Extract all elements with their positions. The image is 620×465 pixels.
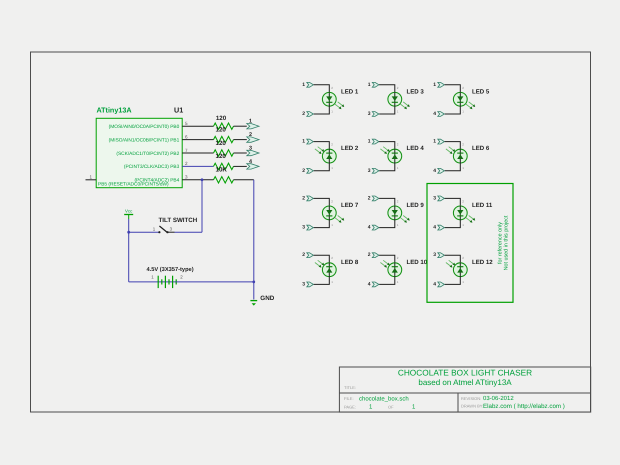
wire tilt switch to node A horizontal bbox=[175, 231, 203, 233]
wire top arrow to LED 10 bbox=[379, 255, 395, 263]
wire IC pin 5 to R1 bbox=[182, 125, 213, 127]
svg-text:U1: U1 bbox=[174, 106, 183, 115]
svg-text:5: 5 bbox=[185, 121, 188, 126]
battery BT1 4.5V bbox=[158, 276, 176, 288]
svg-text:REVISION:: REVISION: bbox=[461, 396, 481, 401]
wire top arrow to LED 4 bbox=[379, 142, 395, 150]
label LED 12 bbox=[472, 259, 493, 266]
svg-text:TILT SWITCH: TILT SWITCH bbox=[159, 217, 198, 224]
LED LED 1 bbox=[322, 92, 344, 109]
svg-text:3: 3 bbox=[302, 281, 305, 287]
pin number 3 bbox=[185, 175, 188, 180]
LED LED 10 bbox=[380, 260, 401, 276]
LED LED 11 bbox=[453, 206, 475, 223]
wire LED 5 to bottom arrow bbox=[445, 106, 461, 114]
svg-text:LED 9: LED 9 bbox=[407, 202, 425, 209]
svg-text:PAGE:: PAGE: bbox=[344, 404, 356, 409]
label LED 8 bbox=[341, 259, 359, 266]
svg-text:LED 2: LED 2 bbox=[341, 145, 359, 152]
svg-text:CHOCOLATE BOX LIGHT CHASER: CHOCOLATE BOX LIGHT CHASER bbox=[398, 367, 532, 377]
net label 4 (bottom of LED 10) bbox=[368, 281, 371, 287]
label LED 3 bbox=[407, 88, 425, 95]
net label 3 (bottom of LED 3) bbox=[368, 111, 371, 117]
LED LED 9 bbox=[388, 206, 410, 223]
svg-text:3: 3 bbox=[368, 111, 371, 117]
svg-text:1: 1 bbox=[368, 139, 371, 145]
title text based on Atmel ATtiny13A bbox=[418, 378, 512, 387]
net arrow top of LED 8 bbox=[307, 253, 314, 258]
svg-text:3: 3 bbox=[302, 225, 305, 231]
svg-text:LED 7: LED 7 bbox=[341, 202, 359, 209]
resistor R2 (120) bbox=[214, 136, 234, 142]
file name chocolate_box.sch bbox=[359, 396, 409, 403]
svg-text:OF: OF bbox=[388, 404, 394, 409]
LED LED 12 bbox=[446, 260, 467, 276]
net arrow top of LED 9 bbox=[372, 196, 379, 201]
svg-text:1: 1 bbox=[90, 174, 93, 179]
svg-text:3: 3 bbox=[185, 175, 188, 180]
net label 2 (top of LED 7) bbox=[302, 195, 305, 201]
label LED 11 bbox=[472, 202, 493, 209]
pin mark bottom of LED 12 bbox=[462, 280, 464, 284]
net arrow bottom of LED 3 bbox=[372, 112, 379, 117]
svg-text:120: 120 bbox=[216, 126, 227, 133]
pin label (PCINT3/CLK/ADC3) PB3 bbox=[124, 164, 180, 170]
net arrow top of LED 3 bbox=[372, 82, 379, 87]
wire down to ground bbox=[253, 282, 255, 300]
net label 4 bbox=[249, 159, 252, 165]
wire battery right to GND vertical bbox=[176, 281, 254, 283]
pin mark top of LED 7 bbox=[331, 199, 333, 203]
net label 1 (top of LED 4) bbox=[368, 139, 371, 145]
label LED 9 bbox=[407, 202, 425, 209]
wire R2 to net arrow 2 bbox=[234, 139, 247, 141]
LED LED 2 bbox=[315, 147, 336, 163]
wire IC pin 3 to node A bbox=[182, 179, 213, 181]
svg-text:for reference only: for reference only bbox=[497, 222, 503, 264]
resistor R5 bbox=[214, 177, 234, 183]
value label 120 bbox=[216, 153, 227, 160]
label TITLE bbox=[344, 385, 356, 390]
svg-text:ATtiny13A: ATtiny13A bbox=[97, 106, 132, 115]
svg-text:4: 4 bbox=[433, 111, 436, 117]
wire top arrow to LED 5 bbox=[445, 85, 461, 93]
wire IC pin 2 to R4 bbox=[182, 165, 213, 167]
svg-text:(MISO/AIN1/OC0B/PCINT1) PB1: (MISO/AIN1/OC0B/PCINT1) PB1 bbox=[109, 137, 180, 143]
net label 1 (top of LED 6) bbox=[433, 139, 436, 145]
net label 2 (top of LED 10) bbox=[368, 252, 371, 258]
value label 120 (R1 name above) bbox=[216, 115, 227, 122]
net arrow 1 bbox=[247, 124, 259, 129]
net arrow 2 bbox=[247, 137, 259, 142]
svg-text:LED 10: LED 10 bbox=[407, 259, 428, 266]
net label 1 (top of LED 1) bbox=[302, 82, 305, 88]
note box (LED11/LED12 not used) bbox=[427, 184, 513, 303]
label LED 7 bbox=[341, 202, 359, 209]
wire top arrow to LED 6 bbox=[445, 142, 461, 150]
wire top arrow to LED 12 bbox=[445, 255, 461, 263]
resistor R3 (120) bbox=[214, 150, 234, 156]
wire top arrow to LED 11 bbox=[445, 198, 461, 206]
wire Vcc down to switch junction bbox=[128, 219, 130, 232]
pin mark top of LED 2 bbox=[331, 143, 333, 147]
label DRAWN BY bbox=[461, 403, 483, 408]
pin mark bottom of LED 1 bbox=[331, 109, 333, 113]
svg-text:FILE:: FILE: bbox=[344, 396, 354, 401]
net arrow top of LED 2 bbox=[307, 139, 314, 144]
net arrow top of LED 10 bbox=[372, 253, 379, 258]
pin label (MOSI/AIN0/OC0A/PCINT0) PB0 bbox=[109, 124, 180, 130]
pin mark top of LED 3 bbox=[397, 86, 399, 90]
label REVISION bbox=[461, 396, 481, 401]
svg-text:1: 1 bbox=[302, 139, 305, 145]
svg-text:LED 5: LED 5 bbox=[472, 88, 490, 95]
svg-text:3: 3 bbox=[249, 145, 252, 151]
net arrow bottom of LED 1 bbox=[307, 112, 314, 117]
title block bbox=[339, 367, 590, 412]
net arrow top of LED 4 bbox=[372, 139, 379, 144]
net arrow top of LED 7 bbox=[307, 196, 314, 201]
net arrow top of LED 5 bbox=[438, 82, 445, 87]
pin mark bottom of LED 9 bbox=[397, 223, 399, 227]
svg-text:2: 2 bbox=[368, 195, 371, 201]
pin number 2 (battery) bbox=[180, 275, 183, 280]
svg-text:4: 4 bbox=[433, 281, 436, 287]
svg-text:2: 2 bbox=[185, 161, 188, 166]
wire top arrow to LED 9 bbox=[379, 198, 395, 206]
svg-text:3: 3 bbox=[433, 252, 436, 258]
pin mark bottom of LED 4 bbox=[397, 166, 399, 170]
svg-text:2: 2 bbox=[302, 111, 305, 117]
power Vcc symbol bbox=[124, 215, 133, 220]
wire battery left lead bbox=[129, 281, 177, 283]
svg-text:4: 4 bbox=[368, 281, 371, 287]
pin number 1 (battery) bbox=[151, 275, 154, 280]
wire LED 8 to bottom arrow bbox=[314, 277, 330, 285]
net label 1 (top of LED 2) bbox=[302, 139, 305, 145]
label Vcc bbox=[125, 208, 133, 213]
label LED 10 bbox=[407, 259, 428, 266]
svg-text:(MOSI/AIN0/OC0A/PCINT0) PB0: (MOSI/AIN0/OC0A/PCINT0) PB0 bbox=[109, 124, 180, 130]
svg-text:1: 1 bbox=[433, 139, 436, 145]
svg-text:(PCINT3/CLK/ADC3) PB3: (PCINT3/CLK/ADC3) PB3 bbox=[124, 164, 180, 170]
wire R1 to net arrow 1 bbox=[234, 125, 247, 127]
drawn by Elabz.com bbox=[483, 403, 565, 410]
svg-text:LED 11: LED 11 bbox=[472, 202, 493, 209]
net label 2 (top of LED 9) bbox=[368, 195, 371, 201]
value label 120 bbox=[216, 126, 227, 133]
net arrow bottom of LED 6 bbox=[438, 168, 445, 173]
svg-text:GND: GND bbox=[260, 295, 274, 302]
net label 4 (bottom of LED 9) bbox=[368, 225, 371, 231]
svg-text:120: 120 bbox=[216, 140, 227, 147]
svg-text:LED 4: LED 4 bbox=[407, 145, 425, 152]
net arrow bottom of LED 12 bbox=[438, 282, 445, 287]
net arrow bottom of LED 2 bbox=[307, 168, 314, 173]
net label 3 bbox=[249, 145, 252, 151]
wire LED 2 to bottom arrow bbox=[314, 163, 330, 171]
pin number 7 bbox=[185, 148, 188, 153]
wire IC pin 6 to R2 bbox=[182, 139, 213, 141]
net arrow bottom of LED 9 bbox=[372, 225, 379, 230]
svg-text:2: 2 bbox=[302, 168, 305, 174]
label LED 1 bbox=[341, 88, 359, 95]
svg-text:based on Atmel ATtiny13A: based on Atmel ATtiny13A bbox=[418, 378, 512, 387]
wire junction to switch left bbox=[129, 231, 160, 233]
wire LED 1 to bottom arrow bbox=[314, 106, 330, 114]
wire R5 down right side bbox=[253, 180, 255, 282]
value label 10K bbox=[216, 167, 228, 174]
wire LED 9 to bottom arrow bbox=[379, 220, 395, 228]
label OF bbox=[388, 404, 394, 409]
op-amp U1 ATtiny13A IC body bbox=[96, 118, 182, 187]
wire R3 to net arrow 3 bbox=[234, 152, 247, 154]
net label 2 (bottom of LED 2) bbox=[302, 168, 305, 174]
LED LED 5 bbox=[453, 92, 475, 109]
net arrow top of LED 6 bbox=[438, 139, 445, 144]
svg-text:120: 120 bbox=[216, 115, 227, 122]
wire top arrow to LED 8 bbox=[314, 255, 330, 263]
label ATtiny13A bbox=[97, 106, 132, 115]
LED LED 6 bbox=[446, 147, 467, 163]
svg-text:Vcc: Vcc bbox=[125, 208, 133, 213]
svg-text:LED 8: LED 8 bbox=[341, 259, 359, 266]
wire IC pin 7 to R3 bbox=[182, 152, 213, 154]
wire R4 to net arrow 4 bbox=[234, 165, 247, 167]
label GND bbox=[260, 295, 274, 302]
resistor R4 (10K) bbox=[214, 163, 234, 169]
pin mark top of LED 6 bbox=[462, 143, 464, 147]
net label 1 (top of LED 3) bbox=[368, 82, 371, 88]
pin mark top of LED 1 bbox=[331, 86, 333, 90]
note text: Not used in this project bbox=[504, 215, 510, 270]
svg-text:4: 4 bbox=[433, 168, 436, 174]
pin mark top of LED 8 bbox=[331, 256, 333, 260]
svg-text:03-06-2012: 03-06-2012 bbox=[483, 395, 514, 402]
svg-text:DRAWN BY:: DRAWN BY: bbox=[461, 403, 483, 408]
svg-text:2: 2 bbox=[368, 252, 371, 258]
svg-text:1: 1 bbox=[249, 119, 252, 125]
label TILT SWITCH bbox=[159, 217, 198, 224]
wire LED 7 to bottom arrow bbox=[314, 220, 330, 228]
svg-text:LED 3: LED 3 bbox=[407, 88, 425, 95]
wire LED 6 to bottom arrow bbox=[445, 163, 461, 171]
svg-text:1: 1 bbox=[302, 82, 305, 88]
net label 3 (top of LED 11) bbox=[433, 195, 436, 201]
wire top arrow to LED 1 bbox=[314, 85, 330, 93]
svg-text:120: 120 bbox=[216, 153, 227, 160]
pin number 1 bbox=[90, 174, 93, 179]
label LED 6 bbox=[472, 145, 490, 152]
pin number 3 (switch) bbox=[170, 227, 173, 232]
wire top arrow to LED 3 bbox=[379, 85, 395, 93]
net label 3 (bottom of LED 4) bbox=[368, 168, 371, 174]
pin mark top of LED 9 bbox=[397, 199, 399, 203]
pin 1 stub wire bbox=[86, 179, 97, 181]
pin mark top of LED 12 bbox=[462, 256, 464, 260]
svg-text:(SCK/ADC1/T0/PCINT2) PB2: (SCK/ADC1/T0/PCINT2) PB2 bbox=[116, 151, 179, 157]
svg-text:7: 7 bbox=[185, 148, 188, 153]
pin mark bottom of LED 6 bbox=[462, 166, 464, 170]
resistor R1 (120) bbox=[214, 123, 234, 129]
net label 4 (bottom of LED 12) bbox=[433, 281, 436, 287]
LED LED 3 bbox=[388, 92, 410, 109]
net arrow 4 bbox=[247, 164, 259, 169]
pin number 1 (switch) bbox=[153, 227, 156, 232]
label LED 5 bbox=[472, 88, 490, 95]
wire top arrow to LED 7 bbox=[314, 198, 330, 206]
label U1 bbox=[174, 106, 183, 115]
wire LED 3 to bottom arrow bbox=[379, 106, 395, 114]
note text: for reference only bbox=[497, 222, 503, 264]
label LED 4 bbox=[407, 145, 425, 152]
svg-text:PB5 (RESET/ADC0/PCINT5/dW): PB5 (RESET/ADC0/PCINT5/dW) bbox=[98, 182, 169, 188]
net arrow top of LED 11 bbox=[438, 196, 445, 201]
net label 3 (bottom of LED 8) bbox=[302, 281, 305, 287]
LED LED 7 bbox=[322, 206, 344, 223]
tilt switch S1 bbox=[158, 226, 174, 233]
label FILE bbox=[344, 396, 354, 401]
svg-text:4: 4 bbox=[249, 159, 252, 165]
net label 1 (top of LED 5) bbox=[433, 82, 436, 88]
net label 2 (bottom of LED 1) bbox=[302, 111, 305, 117]
net label 3 (top of LED 12) bbox=[433, 252, 436, 258]
svg-text:4: 4 bbox=[433, 225, 436, 231]
svg-text:2: 2 bbox=[302, 252, 305, 258]
label PAGE bbox=[344, 404, 356, 409]
net arrow bottom of LED 10 bbox=[372, 282, 379, 287]
net label 2 (top of LED 8) bbox=[302, 252, 305, 258]
page number 1 bbox=[369, 404, 373, 411]
wire LED 12 to bottom arrow bbox=[445, 277, 461, 285]
pin label (PCINT4/ADC2) PB4 bbox=[135, 178, 180, 184]
LED LED 8 bbox=[315, 260, 336, 276]
junction node A bbox=[201, 178, 204, 181]
svg-text:2: 2 bbox=[249, 132, 252, 138]
pin mark bottom of LED 10 bbox=[397, 280, 399, 284]
pin mark top of LED 5 bbox=[462, 86, 464, 90]
wire LED 10 to bottom arrow bbox=[379, 277, 395, 285]
pin label (SCK/ADC1/T0/PCINT2) PB2 bbox=[116, 151, 179, 157]
wire top arrow to LED 2 bbox=[314, 142, 330, 150]
wire LED 4 to bottom arrow bbox=[379, 163, 395, 171]
wire R5 right lead bbox=[234, 179, 254, 181]
svg-text:6: 6 bbox=[185, 134, 188, 139]
page total 1 bbox=[412, 404, 416, 411]
pin mark bottom of LED 8 bbox=[331, 280, 333, 284]
svg-text:LED 1: LED 1 bbox=[341, 88, 359, 95]
pin mark top of LED 10 bbox=[397, 256, 399, 260]
svg-text:2: 2 bbox=[302, 195, 305, 201]
svg-text:chocolate_box.sch: chocolate_box.sch bbox=[359, 396, 409, 403]
wire LED 11 to bottom arrow bbox=[445, 220, 461, 228]
net arrow bottom of LED 4 bbox=[372, 168, 379, 173]
pin number 2 bbox=[185, 161, 188, 166]
svg-text:10K: 10K bbox=[216, 167, 228, 174]
net arrow top of LED 12 bbox=[438, 253, 445, 258]
label LED 2 bbox=[341, 145, 359, 152]
pin number 6 bbox=[185, 134, 188, 139]
svg-text:1: 1 bbox=[433, 82, 436, 88]
net arrow 3 bbox=[247, 150, 259, 155]
junction at Vcc/switch/battery bbox=[127, 231, 130, 234]
pin label (MISO/AIN1/OC0B/PCINT1) PB1 bbox=[109, 137, 180, 143]
net label 1 bbox=[249, 119, 252, 125]
svg-text:3: 3 bbox=[433, 195, 436, 201]
net label 4 (bottom of LED 6) bbox=[433, 168, 436, 174]
svg-text:TITLE:: TITLE: bbox=[344, 385, 356, 390]
wire junction down to battery bbox=[128, 232, 130, 282]
net label 3 (bottom of LED 7) bbox=[302, 225, 305, 231]
pin mark bottom of LED 5 bbox=[462, 109, 464, 113]
ground bbox=[250, 301, 257, 306]
pin mark bottom of LED 7 bbox=[331, 223, 333, 227]
pin number 5 bbox=[185, 121, 188, 126]
pin mark bottom of LED 3 bbox=[397, 109, 399, 113]
svg-text:LED 12: LED 12 bbox=[472, 259, 493, 266]
net label 4 (bottom of LED 5) bbox=[433, 111, 436, 117]
svg-text:1: 1 bbox=[368, 82, 371, 88]
revision 03-06-2012 bbox=[483, 395, 514, 402]
svg-text:4: 4 bbox=[368, 225, 371, 231]
svg-text:4.5V (3X357-type): 4.5V (3X357-type) bbox=[147, 266, 194, 273]
net arrow bottom of LED 8 bbox=[307, 282, 314, 287]
wire node A down to tilt switch bbox=[201, 180, 203, 232]
net label 4 (bottom of LED 11) bbox=[433, 225, 436, 231]
svg-text:LED 6: LED 6 bbox=[472, 145, 490, 152]
svg-text:3: 3 bbox=[368, 168, 371, 174]
value label 120 bbox=[216, 140, 227, 147]
pin mark top of LED 4 bbox=[397, 143, 399, 147]
pin label PB5 (RESET/ADC0/PCINT5/dW) bbox=[98, 182, 169, 188]
title text CHOCOLATE BOX LIGHT CHASER bbox=[398, 367, 532, 377]
label 4.5V (3X357-type) bbox=[147, 266, 194, 273]
pin mark bottom of LED 11 bbox=[462, 223, 464, 227]
pin mark top of LED 11 bbox=[462, 199, 464, 203]
net arrow bottom of LED 11 bbox=[438, 225, 445, 230]
net arrow bottom of LED 7 bbox=[307, 225, 314, 230]
LED LED 4 bbox=[380, 147, 401, 163]
net label 2 bbox=[249, 132, 252, 138]
junction battery/GND bbox=[252, 281, 255, 284]
net arrow top of LED 1 bbox=[307, 82, 314, 87]
svg-text:Elabz.com ( http://elabz.com ): Elabz.com ( http://elabz.com ) bbox=[483, 403, 565, 410]
svg-text:Not used in this project: Not used in this project bbox=[504, 215, 510, 270]
net arrow bottom of LED 5 bbox=[438, 112, 445, 117]
pin mark bottom of LED 2 bbox=[331, 166, 333, 170]
